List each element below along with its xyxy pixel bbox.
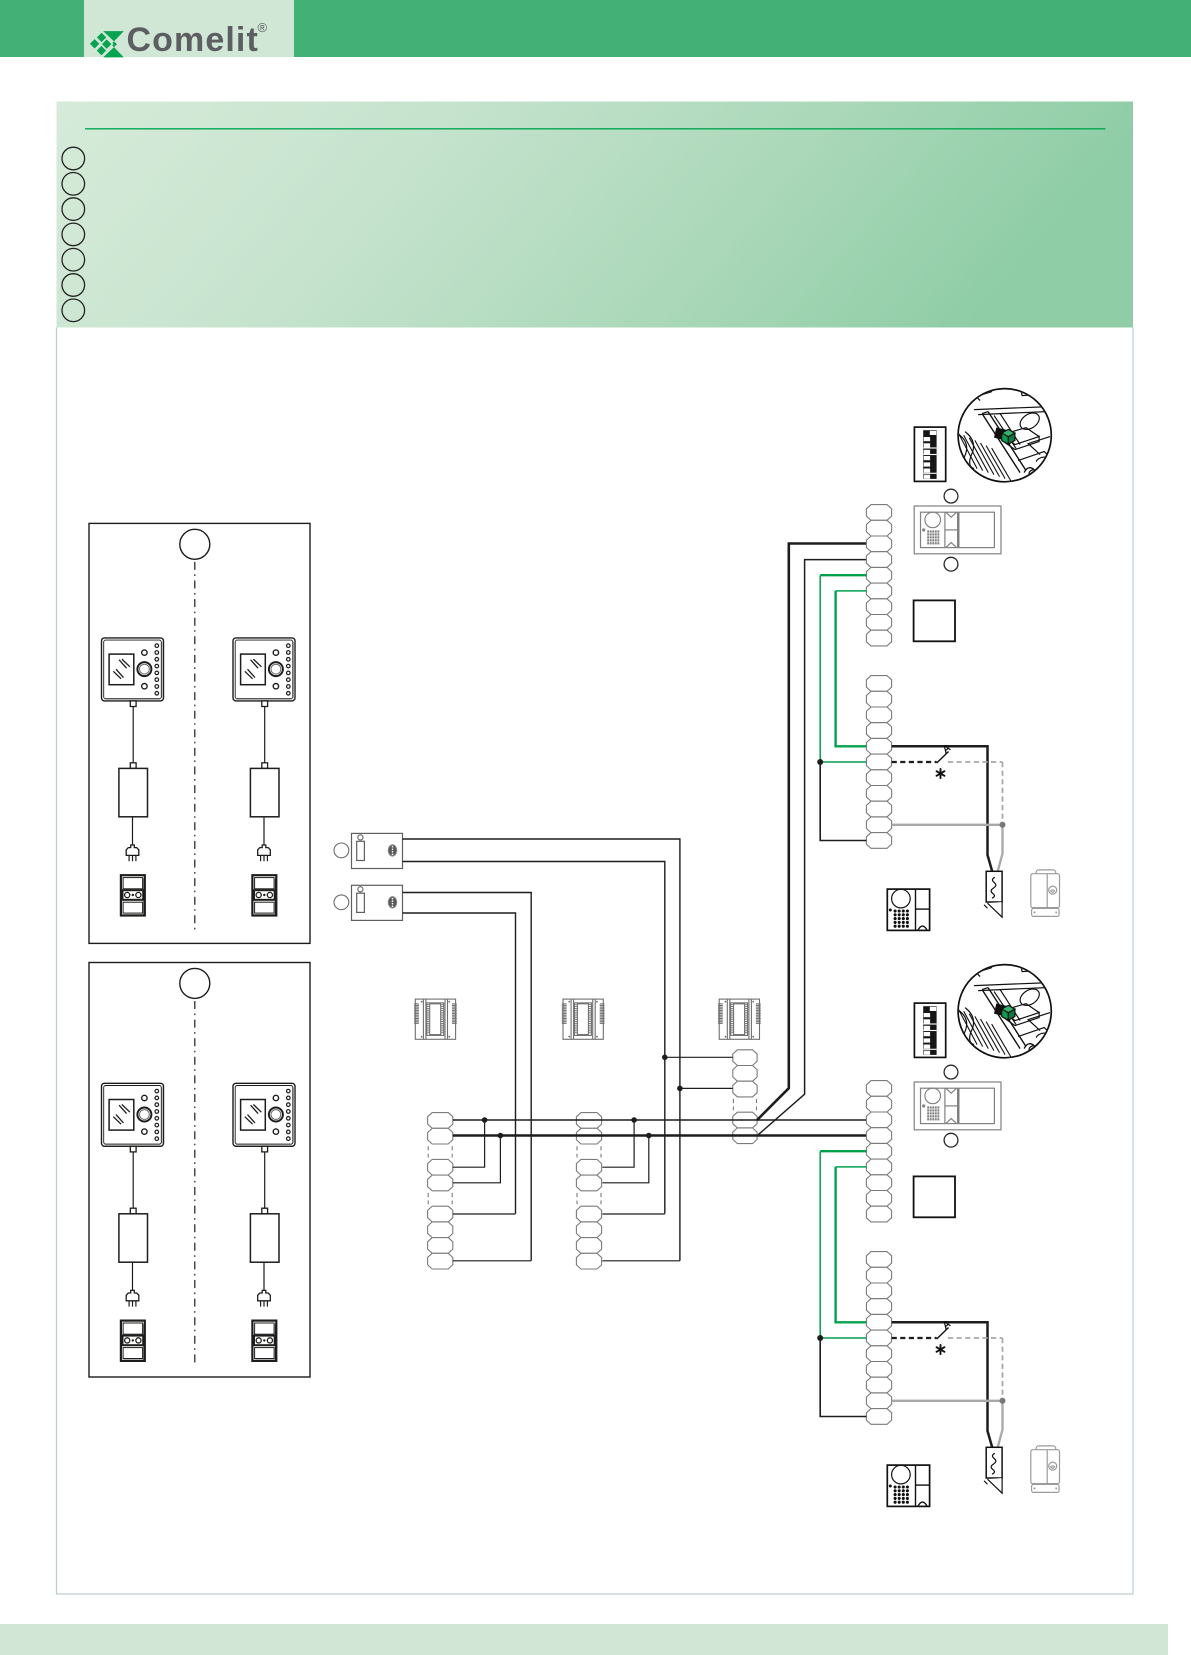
svg-text:®: ®: [258, 20, 268, 35]
svg-text:Comelit: Comelit: [127, 21, 259, 59]
